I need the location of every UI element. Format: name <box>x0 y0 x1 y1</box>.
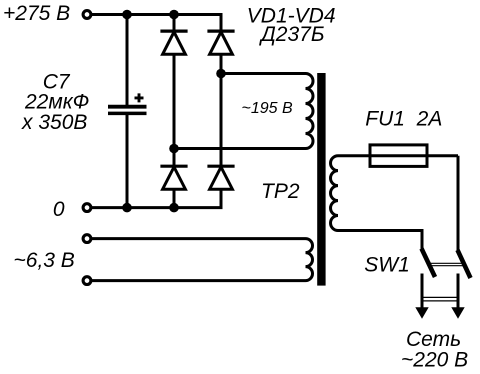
junction top rail / C7 <box>122 10 132 20</box>
C7 bottom plate <box>108 112 147 116</box>
transformer TP2 core <box>317 73 325 286</box>
junction 0 rail / VD3 <box>169 203 179 213</box>
wire C7 top lead <box>126 15 129 106</box>
svg-text:+275 В: +275 В <box>3 2 70 25</box>
terminal 6.3V bottom <box>83 277 91 285</box>
diode VD1 <box>160 31 187 54</box>
diode VD2 <box>207 31 234 54</box>
C7 polarity + <box>135 93 144 102</box>
svg-text:SW1: SW1 <box>364 254 410 277</box>
junction 0 rail / C7 <box>122 203 132 213</box>
wire plug left <box>421 274 424 310</box>
wire junction to VD3 <box>173 149 176 166</box>
wire fuse output down to switch <box>457 156 460 252</box>
switch SW1 blade left <box>422 249 436 278</box>
terminal 6.3V top <box>83 235 91 243</box>
wire VD2 anode to junction <box>220 54 223 73</box>
winding TP2 secondary ~195 В with leads <box>174 74 313 149</box>
svg-text:ТР2: ТР2 <box>261 180 300 203</box>
capacitor C7 <box>108 15 147 208</box>
wire VD1 anode to junction <box>173 54 176 148</box>
plug arrow left <box>415 307 428 319</box>
svg-text:х 350В: х 350В <box>21 111 87 134</box>
wire top rail to VD1 cathode <box>173 15 176 32</box>
C7 top plate <box>108 105 147 109</box>
terminal 0 <box>83 204 91 212</box>
wire primary bottom to switch <box>421 229 424 251</box>
junction AC bottom (VD1-VD3) <box>169 144 179 154</box>
svg-text:~6,3 В: ~6,3 В <box>14 249 75 272</box>
diode VD4 <box>207 166 234 189</box>
wire 0 rail <box>92 206 223 209</box>
wire VD4 anode to 0 rail corner <box>220 189 223 207</box>
wire plug right <box>457 274 460 310</box>
terminal +275V <box>83 11 91 19</box>
svg-text:~195 В: ~195 В <box>242 100 293 117</box>
junction AC top (to winding) <box>216 69 226 79</box>
switch SW1 mechanical link <box>430 263 464 265</box>
switch SW1 blade right <box>458 250 471 278</box>
junction top rail / VD1 <box>169 10 179 20</box>
plug connector link <box>421 297 459 301</box>
svg-text:FU1 2A: FU1 2A <box>365 108 442 131</box>
wire AC node column (VD2-VD4) <box>220 74 223 166</box>
plug arrow right <box>451 307 464 319</box>
svg-text:0: 0 <box>53 198 65 221</box>
svg-text:~220 В: ~220 В <box>401 349 468 372</box>
winding TP2 primary 220V with leads <box>331 156 458 231</box>
wire corner to VD2 <box>220 13 223 31</box>
winding TP2 secondary ~6,3 В with leads <box>92 239 313 281</box>
diode VD3 <box>160 166 187 189</box>
wire top rail (+275V bus) <box>92 13 222 16</box>
wire C7 bottom lead <box>126 115 129 208</box>
wire VD3 anode to 0 rail <box>173 189 176 207</box>
fuse FU1 <box>370 145 427 167</box>
svg-text:Д237Б: Д237Б <box>259 23 325 46</box>
